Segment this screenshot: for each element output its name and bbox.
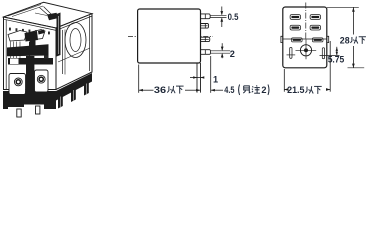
svg-text:21.5: 21.5 <box>287 85 304 95</box>
svg-text:1: 1 <box>213 74 218 84</box>
svg-text:2: 2 <box>261 85 266 95</box>
svg-text:36: 36 <box>154 85 166 95</box>
svg-text:28: 28 <box>340 36 350 46</box>
svg-text:2: 2 <box>230 49 235 59</box>
svg-text:0.5: 0.5 <box>228 12 239 22</box>
svg-text:4.5: 4.5 <box>224 85 234 95</box>
